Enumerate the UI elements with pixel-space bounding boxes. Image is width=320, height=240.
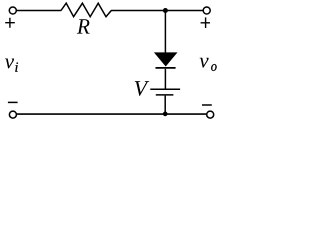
minus sign bottom-left	[8, 101, 18, 103]
diode cathode bar	[156, 67, 176, 69]
node junction bottom	[163, 112, 168, 117]
terminal bottom-right	[207, 111, 214, 118]
minus sign bottom-right	[202, 104, 212, 106]
wire diode branch upper	[164, 11, 166, 54]
plus sign top-right	[201, 17, 210, 28]
wire top-right	[165, 10, 203, 12]
label v_i	[5, 59, 14, 69]
bottom wire	[17, 113, 207, 115]
plus sign top-left	[5, 18, 15, 28]
label R	[77, 19, 90, 33]
diode D anode triangle	[154, 52, 178, 66]
wire top-left	[17, 10, 62, 12]
wire top-middle	[111, 10, 165, 12]
terminal bottom-left	[9, 111, 16, 118]
terminal top-right	[203, 7, 210, 14]
label v_o	[200, 58, 209, 68]
battery V plate long	[150, 88, 180, 90]
battery V plate short	[156, 94, 174, 96]
wire diode to battery	[164, 69, 166, 89]
terminal top-left	[9, 7, 16, 14]
resistor R	[61, 3, 111, 17]
node junction top	[163, 8, 168, 13]
wire battery to bottom	[164, 96, 166, 115]
label V	[135, 81, 149, 96]
